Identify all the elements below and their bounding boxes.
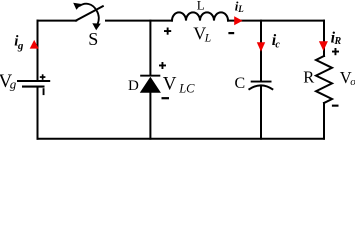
- svg-text:R: R: [303, 67, 314, 86]
- svg-text:L: L: [197, 0, 205, 12]
- svg-text:V: V: [163, 73, 177, 94]
- svg-text:D: D: [128, 78, 139, 94]
- svg-text:R: R: [334, 36, 342, 47]
- svg-text:L: L: [204, 33, 211, 45]
- svg-text:C: C: [235, 75, 246, 92]
- svg-text:c: c: [275, 40, 280, 51]
- svg-text:L: L: [237, 4, 244, 14]
- svg-text:o: o: [350, 76, 355, 88]
- svg-text:g: g: [10, 76, 17, 91]
- svg-text:S: S: [88, 29, 98, 49]
- svg-text:g: g: [17, 40, 24, 52]
- svg-text:LC: LC: [178, 82, 195, 96]
